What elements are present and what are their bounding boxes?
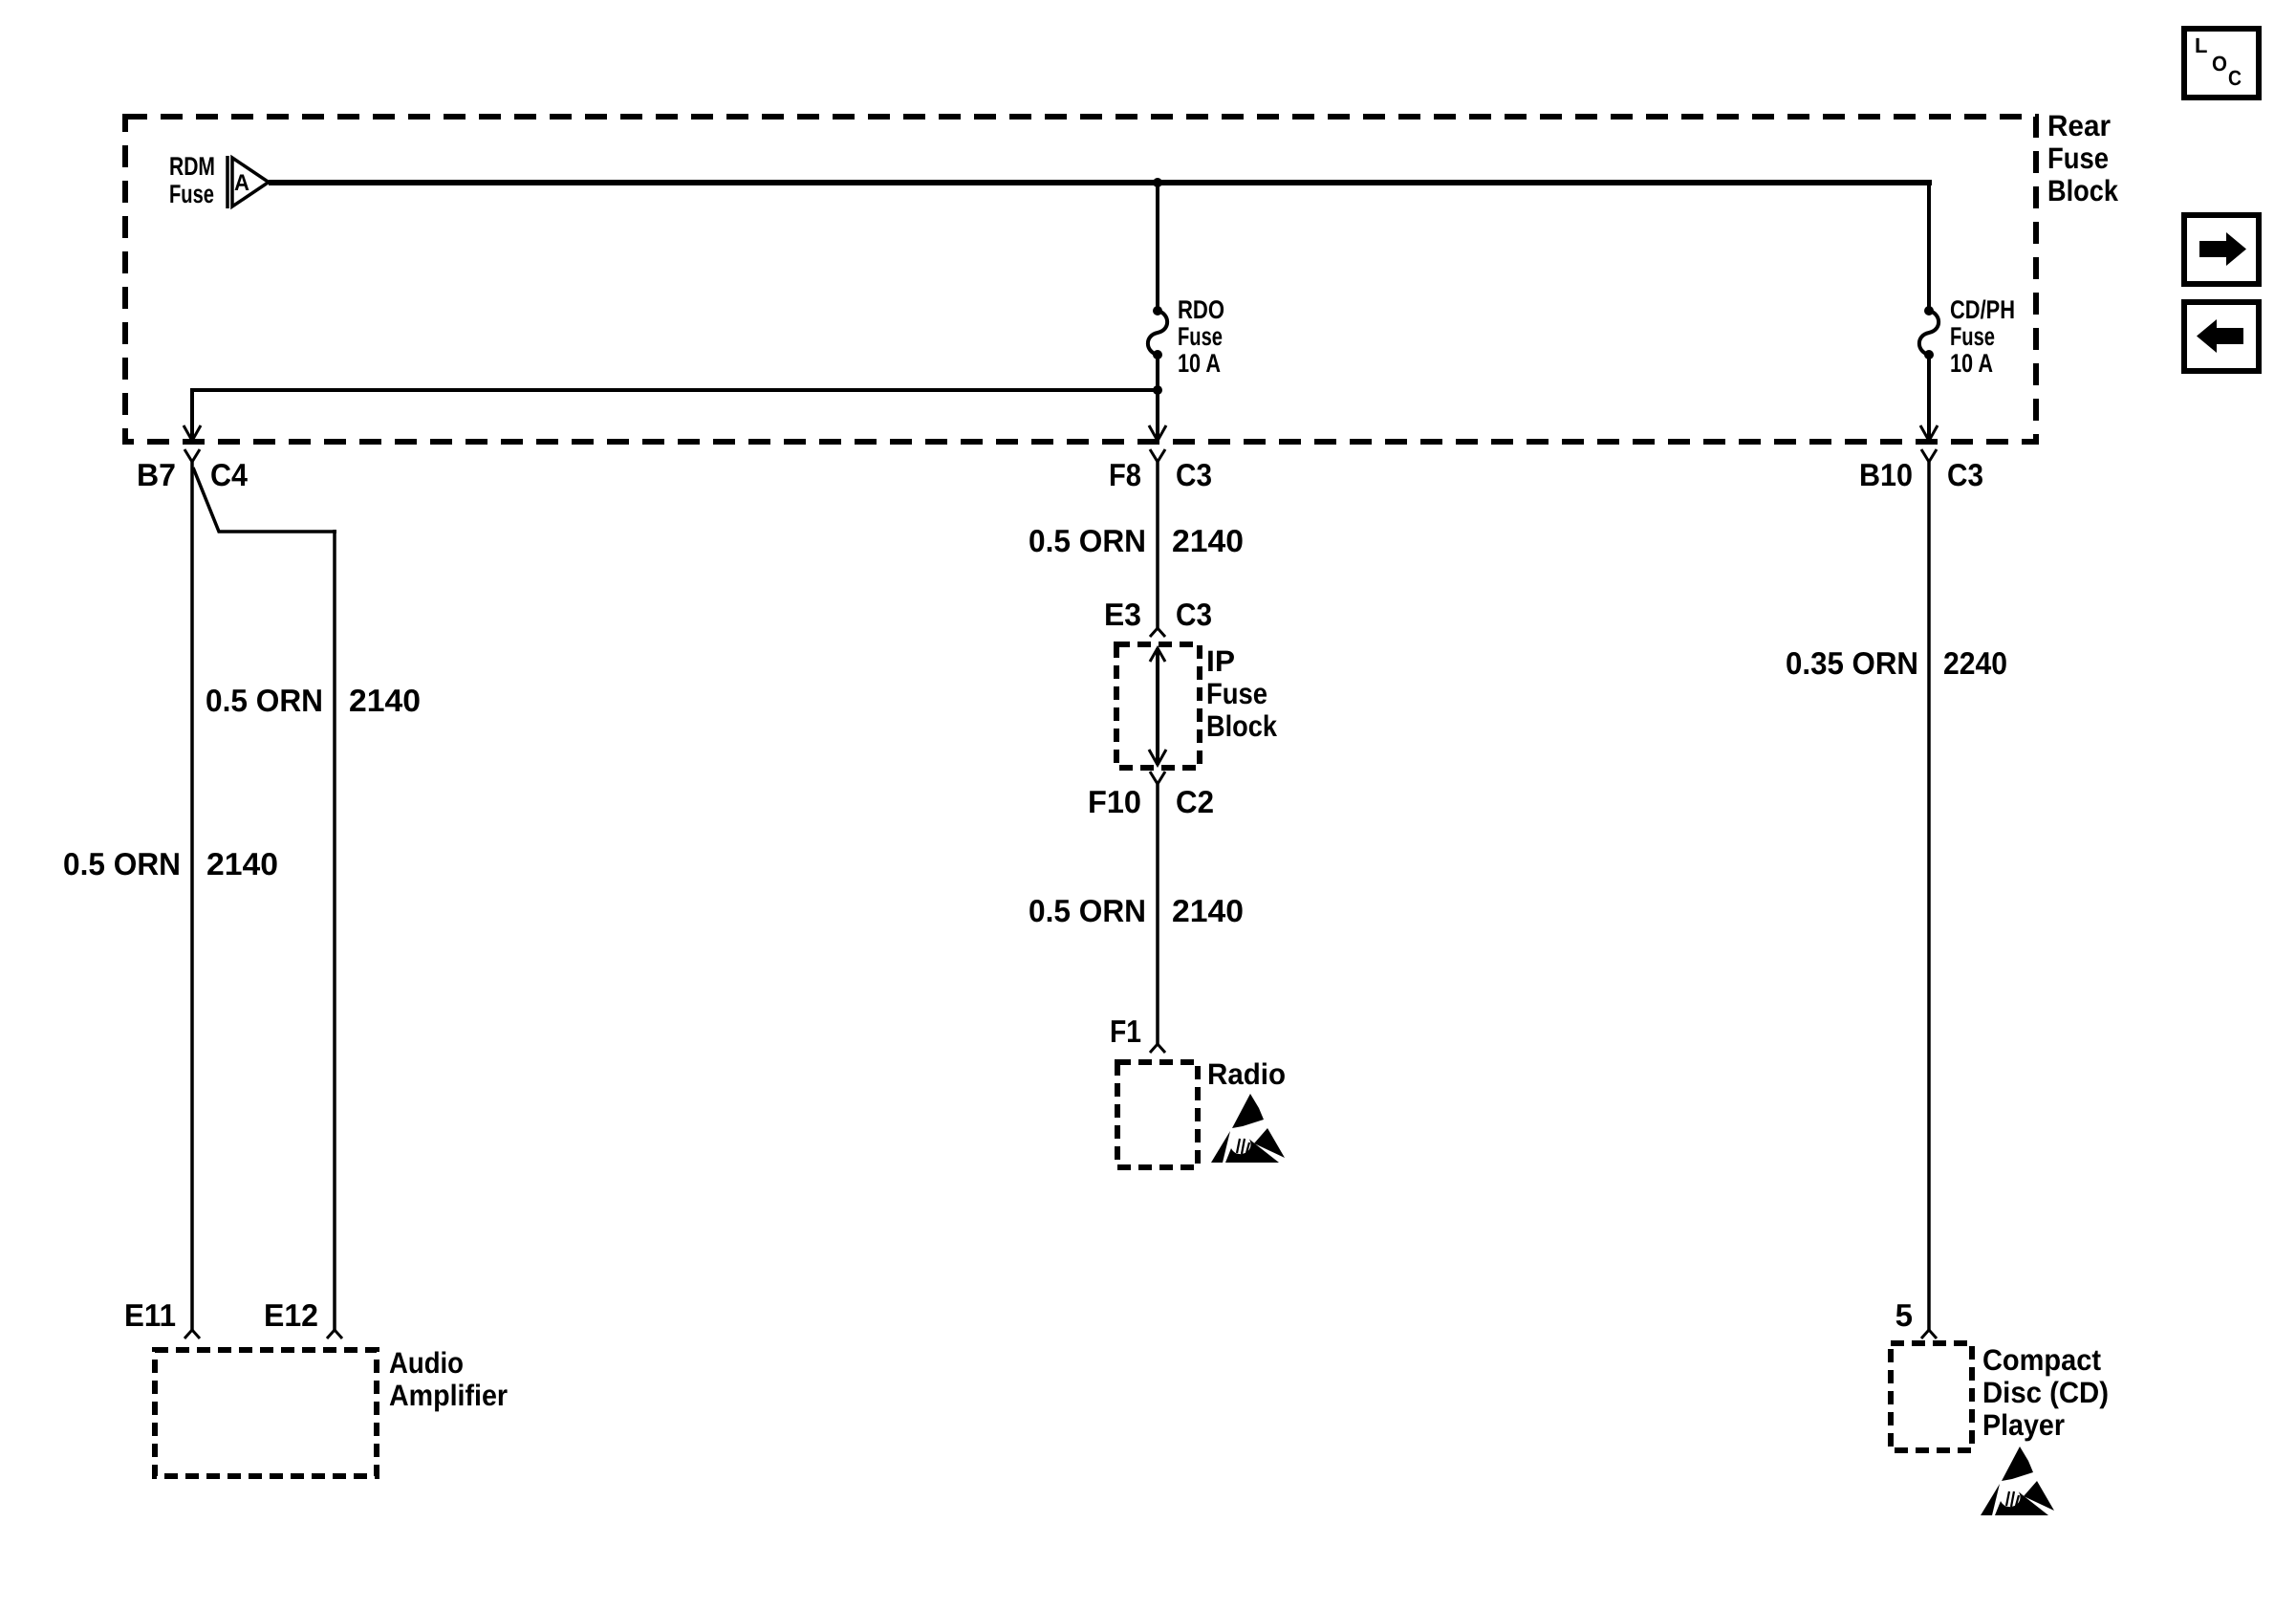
svg-text:Block: Block [2047,174,2119,207]
svg-text:C2: C2 [1176,784,1214,819]
svg-text:RDO: RDO [1178,295,1224,324]
rear fuse block box [125,117,2036,442]
svg-text:C4: C4 [210,457,249,492]
label: Rear Fuse Block [2047,109,2119,207]
svg-text:Player: Player [1982,1408,2065,1442]
fuse CD/PH [1919,306,1939,359]
svg-text:Rear: Rear [2047,109,2111,142]
wire: CD/PH branch down from bus [1927,180,1931,311]
svg-text:F1: F1 [1110,1013,1141,1049]
radio box [1117,1062,1198,1167]
svg-text:Amplifier: Amplifier [389,1379,508,1412]
label: Compact Disc (CD) Player [1982,1343,2109,1442]
svg-text:Fuse: Fuse [1178,322,1223,351]
svg-text:2140: 2140 [1172,523,1244,558]
wire: F10 to F1 [1156,784,1159,1044]
ip fuse block box [1116,644,1200,768]
esd symbol (cd player) [1981,1447,2054,1515]
label: IP Fuse Block [1206,644,1278,743]
svg-text:F10: F10 [1088,784,1141,819]
svg-text:F8: F8 [1109,457,1141,492]
nav arrow right box [2184,215,2259,284]
svg-text:C3: C3 [1947,457,1983,492]
wire: C4 diagonal branch [193,468,336,532]
svg-text:B10: B10 [1859,457,1913,492]
svg-text:IP: IP [1206,644,1235,678]
svg-text:0.5 ORN: 0.5 ORN [206,683,323,718]
svg-text:2240: 2240 [1943,645,2007,681]
svg-text:0.5 ORN: 0.5 ORN [63,846,181,881]
svg-text:RDM: RDM [169,152,215,181]
connector B10/C3 [1921,449,1937,462]
svg-text:Fuse: Fuse [1950,322,1995,351]
svg-text:2140: 2140 [1172,893,1244,928]
svg-text:10 A: 10 A [1950,349,1993,378]
svg-text:B7: B7 [137,457,176,492]
svg-text:2140: 2140 [349,683,421,718]
wire: B10 to CD player [1927,462,1931,1330]
wire: RDO branch down from bus [1156,183,1159,311]
nav arrow left box [2184,302,2259,371]
arrow at F8 exit [1149,425,1166,441]
svg-text:Audio: Audio [389,1346,464,1380]
wire: B7 drop [190,388,194,441]
compact disc player box [1891,1343,1972,1450]
svg-text:Block: Block [1206,709,1278,743]
audio amplifier box [155,1350,377,1476]
svg-text:E12: E12 [264,1297,318,1333]
svg-text:0.5 ORN: 0.5 ORN [1029,893,1146,928]
node: junction on top bus [1153,178,1162,187]
svg-text:5: 5 [1895,1297,1913,1333]
svg-text:Compact: Compact [1982,1343,2101,1377]
fuse RDM (triangle A symbol) [227,156,269,208]
svg-text:0.35 ORN: 0.35 ORN [1786,645,1918,681]
svg-text:Radio: Radio [1207,1057,1286,1091]
node: junction RDO output [1153,385,1162,395]
arrow at B7 exit [184,425,201,441]
svg-text:C3: C3 [1176,597,1212,632]
svg-text:Disc (CD): Disc (CD) [1982,1376,2109,1409]
svg-text:10 A: 10 A [1178,349,1221,378]
svg-text:O: O [2212,52,2227,76]
wire: top bus from RDM fuse to right branch [269,180,1932,185]
esd symbol (radio) [1211,1094,1285,1163]
wire: CD/PH fuse output down to connector B10 [1927,351,1931,441]
svg-text:L: L [2195,33,2207,57]
svg-text:Fuse: Fuse [169,180,214,208]
wire: F8 to E3 [1156,462,1159,628]
label: Audio Amplifier [389,1346,508,1412]
svg-text:CD/PH: CD/PH [1950,295,2015,324]
loc reference box [2184,29,2259,98]
fuse RDO [1148,306,1167,359]
svg-text:C3: C3 [1176,457,1212,492]
wire: IP fuse block internal arrow [1156,648,1159,765]
svg-text:0.5 ORN: 0.5 ORN [1029,523,1146,558]
svg-text:Fuse: Fuse [2047,141,2109,175]
svg-text:A: A [234,170,249,196]
svg-text:E3: E3 [1104,597,1141,632]
connector B7/C4 [184,449,200,462]
wire: horizontal feed to B7 [190,388,1158,392]
svg-text:Fuse: Fuse [1206,677,1267,710]
svg-text:C: C [2228,66,2242,90]
svg-text:2140: 2140 [206,846,278,881]
wire: RDO fuse output down to connector F8 [1156,351,1159,441]
connector F10/C2 [1150,772,1165,784]
wire: branch down to E12 [333,530,336,1330]
label: RDM Fuse [169,152,215,208]
wire: B7 to E11 [190,462,194,1330]
svg-text:E11: E11 [124,1297,176,1333]
label: RDO Fuse 10 A [1178,295,1224,378]
arrow at B10 exit [1920,425,1938,441]
label: CD/PH Fuse 10 A [1950,295,2015,378]
connector F8/C3 [1150,449,1165,462]
